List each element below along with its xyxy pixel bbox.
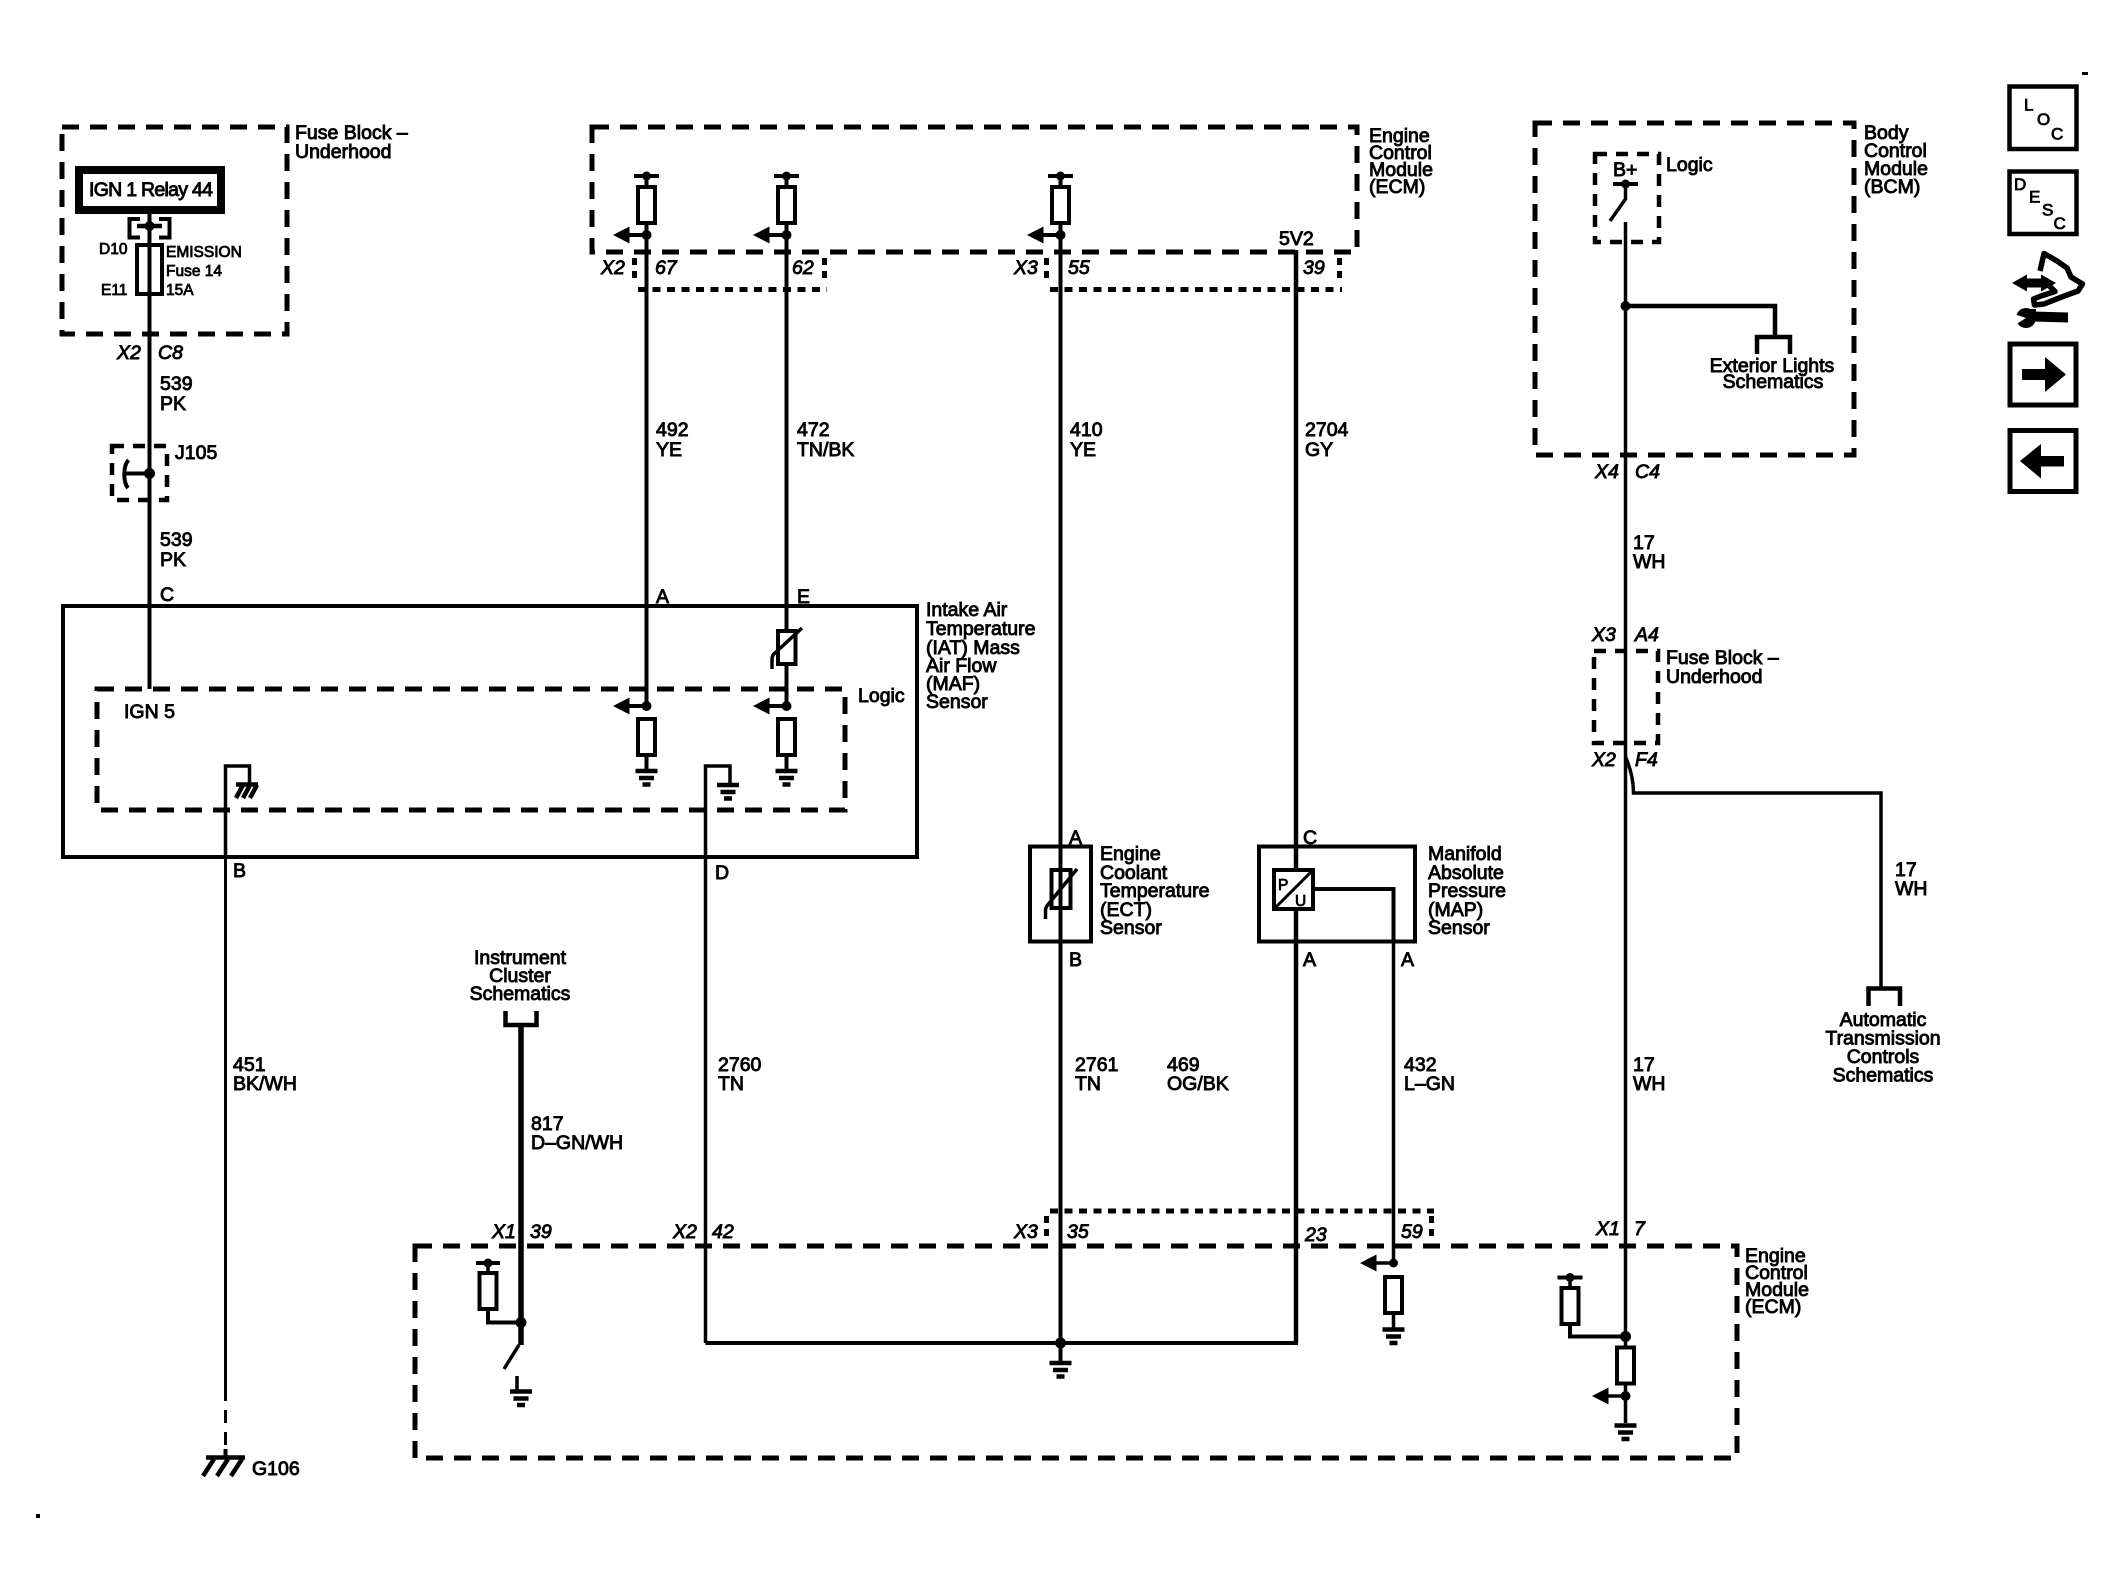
node with arrow pin 7 bbox=[1624, 1384, 1628, 1424]
node junction pin 35 bus bbox=[1055, 1338, 1066, 1349]
svg-text:J105: J105 bbox=[175, 442, 217, 464]
svg-text:62: 62 bbox=[792, 257, 814, 279]
svg-text:Logic: Logic bbox=[858, 685, 905, 707]
svg-text:539: 539 bbox=[160, 529, 193, 551]
svg-text:Logic: Logic bbox=[1666, 154, 1713, 176]
svg-text:7: 7 bbox=[1634, 1218, 1646, 1240]
pull-up resistor (pin 39 circuit) bbox=[476, 1261, 500, 1265]
svg-text:B: B bbox=[233, 860, 246, 882]
wire 2704 GY (pin 39 to MAP C) bbox=[1294, 250, 1299, 870]
svg-text:D: D bbox=[715, 862, 729, 884]
svg-text:L–GN: L–GN bbox=[1404, 1073, 1455, 1095]
resistor in ECM pin 67 bbox=[634, 174, 659, 178]
svg-text:X2: X2 bbox=[1591, 749, 1616, 771]
svg-text:B+: B+ bbox=[1613, 159, 1637, 181]
ground pin 7 bbox=[1615, 1426, 1637, 1440]
switch (BCM driver) bbox=[1610, 188, 1626, 221]
fuse block underhood box (top left) bbox=[62, 127, 287, 334]
svg-text:59: 59 bbox=[1401, 1221, 1423, 1243]
wire 432 L-GN (MAP right A to ECM 59) bbox=[1392, 889, 1396, 1263]
ECT sensor box bbox=[1030, 847, 1091, 942]
off-page connector automatic transmission bbox=[1869, 989, 1901, 1007]
body control module BCM box bbox=[1535, 123, 1854, 455]
svg-text:F4: F4 bbox=[1635, 749, 1658, 771]
svg-text:A: A bbox=[1303, 949, 1316, 971]
connector X2 strip (pins 67 62) bbox=[632, 258, 637, 283]
svg-text:X2: X2 bbox=[116, 342, 141, 364]
wire 410 YE (pin 55 to ECT A) bbox=[1059, 176, 1063, 1343]
svg-text:OG/BK: OG/BK bbox=[1167, 1073, 1229, 1095]
svg-text:G106: G106 bbox=[252, 1458, 300, 1480]
svg-text:IGN 1 Relay 44: IGN 1 Relay 44 bbox=[89, 179, 213, 201]
off-page connector exterior lights bbox=[1757, 337, 1790, 354]
svg-text:Underhood: Underhood bbox=[1666, 666, 1763, 688]
svg-text:472: 472 bbox=[797, 419, 830, 441]
svg-text:C: C bbox=[2054, 214, 2066, 233]
svg-text:C4: C4 bbox=[1635, 461, 1660, 483]
wire 472 TN/BK (pin 62 to MAF E) bbox=[785, 176, 789, 706]
svg-text:P: P bbox=[1278, 877, 1288, 894]
thermistor (MAF IAT element) bbox=[778, 631, 796, 664]
svg-text:410: 410 bbox=[1070, 419, 1103, 441]
wire 492 YE (pin 67 to MAF A) bbox=[645, 176, 649, 706]
svg-text:PK: PK bbox=[160, 549, 186, 571]
svg-text:X2: X2 bbox=[672, 1221, 697, 1243]
svg-text:WH: WH bbox=[1633, 1073, 1666, 1095]
svg-text:D10: D10 bbox=[99, 241, 128, 258]
svg-text:67: 67 bbox=[655, 257, 678, 279]
wire 539 PK from fuse to IAT box bbox=[148, 294, 152, 689]
svg-text:IGN 5: IGN 5 bbox=[124, 701, 175, 723]
stray mark bottom left bbox=[36, 1514, 40, 1518]
svg-text:EMISSION: EMISSION bbox=[166, 244, 242, 261]
svg-text:Fuse 14: Fuse 14 bbox=[166, 263, 222, 280]
stray mark top right bbox=[2082, 72, 2088, 75]
node with arrow pin 59 bbox=[1389, 1259, 1398, 1268]
svg-text:X4: X4 bbox=[1594, 461, 1619, 483]
icon wrench bbox=[2016, 308, 2036, 328]
resistor in ECM pin 55 bbox=[1048, 174, 1073, 178]
engine control module ECM box (bottom) bbox=[415, 1246, 1737, 1458]
MAP sensor box bbox=[1259, 847, 1415, 942]
svg-text:L: L bbox=[2024, 96, 2033, 115]
resistor (MAF logic A) bbox=[638, 719, 655, 755]
wire 451 BK/WH bbox=[224, 857, 227, 1388]
svg-text:TN: TN bbox=[1075, 1073, 1101, 1095]
svg-text:492: 492 bbox=[656, 419, 689, 441]
svg-text:39: 39 bbox=[530, 1221, 552, 1243]
svg-text:EngineControlModule(ECM): EngineControlModule(ECM) bbox=[1745, 1245, 1809, 1318]
svg-text:15A: 15A bbox=[166, 282, 194, 299]
svg-text:PK: PK bbox=[160, 393, 186, 415]
icon LOC button bbox=[2010, 87, 2077, 150]
icon forward arrow button bbox=[2010, 344, 2076, 405]
icon back arrow button bbox=[2010, 431, 2076, 492]
icon vehicle double-arrow bbox=[2012, 275, 2056, 292]
fuse block underhood pass-through box bbox=[1594, 651, 1658, 743]
wire 469 OG/BK (MAP A to ECM 23) bbox=[1294, 909, 1299, 1343]
svg-text:C: C bbox=[2051, 125, 2063, 144]
ground (ECM internal switch) bbox=[515, 1376, 519, 1390]
svg-text:E: E bbox=[2029, 188, 2040, 207]
relay IGN 1 Relay 44 bbox=[79, 170, 221, 210]
node junction to exterior lights bbox=[1621, 301, 1631, 311]
switch (ECM internal) bbox=[504, 1345, 519, 1369]
svg-text:TN/BK: TN/BK bbox=[797, 439, 854, 461]
wire D ground return inside MAF bbox=[706, 766, 731, 857]
ground G106 bbox=[224, 1449, 228, 1456]
relay pin connector bracket bbox=[130, 219, 141, 238]
wire relay to fuse bbox=[148, 212, 152, 246]
svg-text:YE: YE bbox=[1070, 439, 1096, 461]
thermistor (ECT element) bbox=[1052, 870, 1071, 908]
ground (MAF logic A) bbox=[645, 755, 649, 771]
node with arrow pin 62 bbox=[782, 230, 792, 240]
svg-text:2704: 2704 bbox=[1305, 419, 1349, 441]
engine control module ECM box (top) bbox=[592, 127, 1357, 252]
svg-text:AutomaticTransmissionControlsS: AutomaticTransmissionControlsSchematics bbox=[1825, 1009, 1940, 1087]
svg-text:Schematics: Schematics bbox=[1723, 371, 1824, 393]
svg-text:A4: A4 bbox=[1634, 624, 1659, 646]
branch wire to automatic transmission controls bbox=[1626, 757, 1882, 988]
svg-text:E11: E11 bbox=[101, 282, 127, 299]
B+ logic dashed box bbox=[1595, 154, 1659, 242]
svg-text:X1: X1 bbox=[1595, 1218, 1620, 1240]
wire 17 WH main (BCM to ECM X1 7) bbox=[1624, 222, 1628, 1347]
svg-text:BK/WH: BK/WH bbox=[233, 1073, 297, 1095]
B+ feed bar bbox=[1613, 182, 1638, 186]
svg-text:U: U bbox=[1295, 893, 1306, 910]
node junction pin 39 bbox=[516, 1317, 527, 1328]
svg-text:39: 39 bbox=[1303, 257, 1325, 279]
resistor (MAF logic E) bbox=[778, 719, 795, 755]
splice J105 bbox=[112, 446, 167, 500]
wire 817 D-GN/WH bbox=[518, 1025, 524, 1345]
svg-text:55: 55 bbox=[1068, 257, 1090, 279]
svg-text:B: B bbox=[1069, 949, 1082, 971]
ground bus wire (42 to 23) bbox=[706, 1246, 1297, 1343]
svg-text:S: S bbox=[2042, 201, 2053, 220]
svg-text:X1: X1 bbox=[491, 1221, 516, 1243]
icon DESC button bbox=[2010, 172, 2077, 235]
node with arrow (MAF signal E) bbox=[782, 701, 792, 711]
node with arrow (MAF signal A) bbox=[642, 701, 652, 711]
svg-text:539: 539 bbox=[160, 373, 193, 395]
P/U pressure transducer symbol bbox=[1274, 870, 1313, 909]
chassis ground (MAF internal) bbox=[236, 782, 258, 787]
svg-text:WH: WH bbox=[1633, 551, 1666, 573]
fuse EMISSION Fuse 14 15A bbox=[137, 245, 162, 294]
svg-text:23: 23 bbox=[1304, 1224, 1327, 1246]
svg-text:C8: C8 bbox=[158, 342, 183, 364]
ground pin 59 bbox=[1392, 1313, 1396, 1328]
node with arrow pin 67 bbox=[642, 230, 652, 240]
node with arrow pin 55 bbox=[1056, 230, 1066, 240]
resistor pin 59 bbox=[1385, 1277, 1402, 1313]
ground (MAF logic E) bbox=[785, 755, 789, 771]
wire MAP U output to right pin A bbox=[1313, 889, 1394, 942]
svg-text:D–GN/WH: D–GN/WH bbox=[531, 1132, 623, 1154]
resistor in ECM pin 62 bbox=[774, 174, 799, 178]
svg-text:X3: X3 bbox=[1013, 257, 1038, 279]
connector X3 strip (bottom pins 35 23 59) bbox=[1050, 1209, 1434, 1214]
IAT MAF sensor box bbox=[63, 606, 917, 857]
svg-text:EngineControlModule(ECM): EngineControlModule(ECM) bbox=[1369, 125, 1433, 198]
svg-text:WH: WH bbox=[1895, 878, 1928, 900]
svg-text:O: O bbox=[2037, 110, 2050, 129]
svg-text:X3: X3 bbox=[1013, 1221, 1038, 1243]
svg-text:42: 42 bbox=[712, 1221, 734, 1243]
wire to exterior lights bbox=[1626, 306, 1776, 335]
resistor below junction pin 7 bbox=[1617, 1348, 1634, 1384]
svg-text:GY: GY bbox=[1305, 439, 1333, 461]
connector X3 strip (pins 55 39) bbox=[1044, 258, 1049, 283]
svg-text:A: A bbox=[1401, 949, 1414, 971]
svg-text:TN: TN bbox=[718, 1073, 744, 1095]
ground (sensor return bus) bbox=[1059, 1343, 1063, 1361]
pull-up resistor (pin 7 circuit) bbox=[1558, 1276, 1583, 1280]
ground (MAF pin D) bbox=[717, 785, 739, 799]
svg-text:X3: X3 bbox=[1591, 624, 1616, 646]
node junction pin 7 bbox=[1620, 1331, 1631, 1342]
svg-text:D: D bbox=[2014, 175, 2026, 194]
svg-text:C: C bbox=[160, 584, 174, 606]
logic dashed box inside MAF bbox=[97, 689, 845, 810]
wire 2760 TN (MAF D to ECM 42) bbox=[704, 857, 708, 1343]
svg-text:35: 35 bbox=[1067, 1221, 1089, 1243]
svg-text:YE: YE bbox=[656, 439, 682, 461]
wire B ground return inside MAF bbox=[226, 766, 250, 857]
svg-text:Underhood: Underhood bbox=[295, 141, 392, 163]
svg-text:X2: X2 bbox=[600, 257, 625, 279]
svg-text:5V2: 5V2 bbox=[1279, 228, 1314, 250]
